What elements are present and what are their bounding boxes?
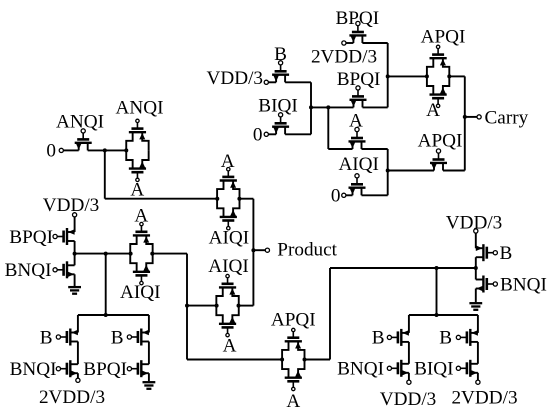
junction bottom-right node: [435, 313, 439, 317]
svg-text:ANQI: ANQI: [56, 111, 104, 132]
svg-text:AIQI: AIQI: [209, 227, 250, 248]
transmission gate TG2 A/AIQI: [217, 168, 239, 230]
transistor BPQI 1: [349, 21, 366, 43]
wire to TG6 left: [187, 359, 282, 361]
junction TG5 left: [425, 74, 429, 78]
wire branch down left: [105, 254, 107, 315]
svg-text:AIQI: AIQI: [338, 154, 379, 175]
ground bottom-left: [143, 373, 156, 389]
junction branch to B-pair: [104, 252, 108, 256]
wire B out: [285, 81, 311, 83]
wire 0 to BIQI: [268, 133, 276, 135]
svg-text:B: B: [40, 327, 53, 348]
wire 0 to AIQI: [346, 194, 353, 196]
svg-text:BPQI: BPQI: [9, 227, 53, 248]
junction Carry node: [463, 115, 467, 119]
svg-text:Carry: Carry: [485, 108, 529, 129]
svg-text:A: A: [134, 206, 148, 227]
terminal 0 input (ANQI stage): [59, 148, 63, 152]
transmission gate TG4 A/AIQI: [130, 222, 152, 284]
svg-text:VDD/3: VDD/3: [207, 68, 264, 89]
wire bottom-left rail: [78, 314, 149, 316]
transistor ANQI pass: [75, 129, 92, 151]
wire BR right bottom: [477, 373, 479, 380]
junction TG2 left: [215, 197, 219, 201]
wire ANQI drain to TG1: [88, 149, 127, 151]
svg-text:BPQI: BPQI: [83, 359, 127, 380]
svg-text:APQI: APQI: [271, 309, 316, 330]
svg-text:0: 0: [331, 186, 341, 207]
terminal 2VDD/3 bottom-right: [476, 380, 480, 384]
wire carry stub: [465, 116, 477, 118]
wire BL left bottom: [77, 373, 79, 378]
transistor BPQI 2: [350, 86, 367, 108]
wire branch down to A row: [327, 107, 329, 149]
junction node B/BIQI: [309, 105, 313, 109]
svg-text:VDD/3: VDD/3: [380, 389, 437, 410]
junction bottom-left node: [104, 313, 108, 317]
svg-text:BNQI: BNQI: [10, 359, 57, 380]
transistor B bottom-right 2: [456, 329, 478, 346]
junction node A/AIQI: [386, 169, 390, 173]
svg-text:APQI: APQI: [418, 130, 463, 151]
transistor B (VDD/3): [272, 61, 289, 83]
wire VDD/3 to B right: [475, 233, 477, 248]
wire to TG2 left: [105, 198, 217, 200]
svg-text:ANQI: ANQI: [116, 98, 164, 119]
transistor A pass: [349, 127, 366, 149]
wire 0 terminal to ANQI source: [63, 149, 78, 151]
svg-text:A: A: [286, 391, 300, 412]
wire BL right top: [148, 315, 150, 333]
wire B/BIQI bus: [310, 82, 312, 134]
svg-text:0: 0: [253, 124, 263, 145]
wire node to TG4: [75, 253, 131, 255]
wire vertical TG4-out bus: [186, 254, 188, 360]
junction branch down right: [435, 266, 439, 270]
svg-text:BIQI: BIQI: [258, 96, 297, 117]
transistor B bottom-right 1: [387, 329, 409, 346]
svg-text:2VDD/3: 2VDD/3: [311, 46, 377, 67]
wire product bus vertical: [252, 199, 254, 306]
wire BL right mid: [148, 342, 150, 365]
terminal Carry: [477, 115, 481, 119]
wire branch to bottom-right block: [436, 268, 438, 315]
svg-text:A: A: [221, 151, 235, 172]
svg-text:A: A: [223, 336, 237, 357]
transistor APQI pass: [430, 149, 447, 171]
transistor BPQI left: [53, 228, 75, 245]
transistor BPQI bottom-left: [127, 360, 149, 377]
wire B to BNQI right: [475, 257, 477, 279]
transistor B right: [476, 244, 498, 261]
junction node right column: [474, 266, 478, 270]
wire TG3 left in: [187, 305, 216, 307]
svg-text:APQI: APQI: [421, 27, 466, 48]
terminal 0 (AIQI): [342, 193, 346, 197]
wire to TG5: [388, 75, 427, 77]
wire BL left top: [77, 315, 79, 333]
wire VDD/3 to B: [268, 81, 276, 83]
wire BPQI2 out: [363, 106, 388, 108]
wire VDD/3 to BPQI: [74, 217, 76, 232]
junction TG6 right: [303, 358, 307, 362]
wire A out: [362, 148, 388, 150]
svg-text:B: B: [111, 327, 124, 348]
wire carry bus vertical: [464, 76, 466, 170]
transistor BNQI bottom-right: [387, 360, 409, 377]
junction TG1 left: [124, 148, 128, 152]
transistor BNQI right: [476, 276, 498, 293]
junction node BPQI/BNQI: [73, 252, 77, 256]
svg-text:BNQI: BNQI: [337, 359, 384, 380]
svg-text:0: 0: [46, 141, 56, 162]
svg-text:B: B: [439, 328, 452, 349]
svg-text:A: A: [426, 100, 440, 121]
svg-text:B: B: [372, 328, 385, 349]
transmission gate TG3 AIQI/A: [216, 274, 238, 336]
wire to A transistor: [328, 148, 352, 150]
wire TG5 right out: [449, 75, 464, 77]
wire 2VDD/3 to BPQI1: [346, 42, 353, 44]
junction Product node: [251, 248, 255, 252]
wire TG6 right out: [305, 359, 330, 361]
junction node ANQI-out: [103, 148, 107, 152]
svg-text:A: A: [130, 179, 144, 200]
svg-text:VDD/3: VDD/3: [43, 195, 100, 216]
transistor BIQI bottom-right: [456, 360, 478, 377]
transistor AIQI pass: [349, 174, 366, 196]
wire A/AIQI bus: [387, 149, 389, 195]
wire TG3 right out: [239, 305, 254, 307]
wire BPQI1 out: [362, 42, 387, 44]
svg-text:BIQI: BIQI: [414, 359, 453, 380]
transmission gate TG1 ANQI/A: [126, 119, 148, 181]
transistor BNQI left: [53, 261, 75, 278]
svg-text:BNQI: BNQI: [500, 274, 547, 295]
wire BR left mid: [408, 342, 410, 364]
transistor BIQI: [272, 113, 289, 135]
wire BIQI out: [285, 133, 311, 135]
svg-text:2VDD/3: 2VDD/3: [39, 387, 105, 408]
transmission gate TG5 APQI/A: [427, 45, 449, 107]
wire BL left mid: [77, 342, 79, 365]
wire node ANQI-out down: [104, 150, 106, 198]
terminal 0 (BIQI): [264, 132, 268, 136]
svg-text:BNQI: BNQI: [5, 260, 52, 281]
transistor B bottom-left 1: [56, 329, 78, 346]
svg-text:2VDD/3: 2VDD/3: [451, 388, 517, 409]
junction TG5 right: [447, 74, 451, 78]
transistor B bottom-left 2: [127, 329, 149, 346]
terminal VDD/3 middle: [264, 80, 268, 84]
junction TG3 left: [215, 304, 219, 308]
wire BPQI bus right: [387, 43, 389, 107]
junction TG6 left: [280, 358, 284, 362]
junction node carry-b: [386, 74, 390, 78]
terminal VDD/3 right: [474, 229, 478, 233]
wire APQI out: [443, 170, 465, 172]
junction node TG3-in: [185, 304, 189, 308]
transmission gate TG6 APQI/A: [282, 328, 304, 390]
wire node to APQI pass: [388, 170, 434, 172]
terminal 2VDD/3 bottom-left: [76, 378, 80, 382]
wire vertical up to carry-b row: [329, 268, 331, 360]
ground left column: [68, 274, 81, 293]
wire long row to right column: [330, 267, 476, 269]
wire BR right top: [477, 315, 479, 333]
wire product stub: [253, 249, 265, 251]
wire bottom-right rail: [409, 314, 478, 316]
svg-text:Product: Product: [277, 239, 337, 260]
wire BR left top: [408, 315, 410, 333]
junction TG4 right: [150, 252, 154, 256]
junction TG2 right: [237, 197, 241, 201]
ground right column: [469, 289, 482, 310]
terminal VDD/3 left: [73, 213, 77, 217]
wire BR left bottom: [408, 373, 410, 380]
wire TG2 right out: [240, 198, 254, 200]
terminal Product: [265, 248, 269, 252]
svg-text:B: B: [500, 243, 513, 264]
wire node to BPQI2: [311, 106, 354, 108]
junction TG3 right: [237, 304, 241, 308]
terminal VDD/3 bottom-right: [407, 380, 411, 384]
junction branch to A row: [326, 105, 330, 109]
svg-text:AIQI: AIQI: [208, 256, 249, 277]
svg-text:AIQI: AIQI: [120, 282, 161, 303]
wire BR right mid: [477, 342, 479, 364]
junction TG4 left: [129, 252, 133, 256]
wire BPQI to BNQI: [74, 241, 76, 265]
terminal 2VDD/3 top: [342, 41, 346, 45]
transistor BNQI bottom-left: [56, 360, 78, 377]
wire AIQI out: [362, 194, 388, 196]
wire TG4 right out: [153, 253, 188, 255]
